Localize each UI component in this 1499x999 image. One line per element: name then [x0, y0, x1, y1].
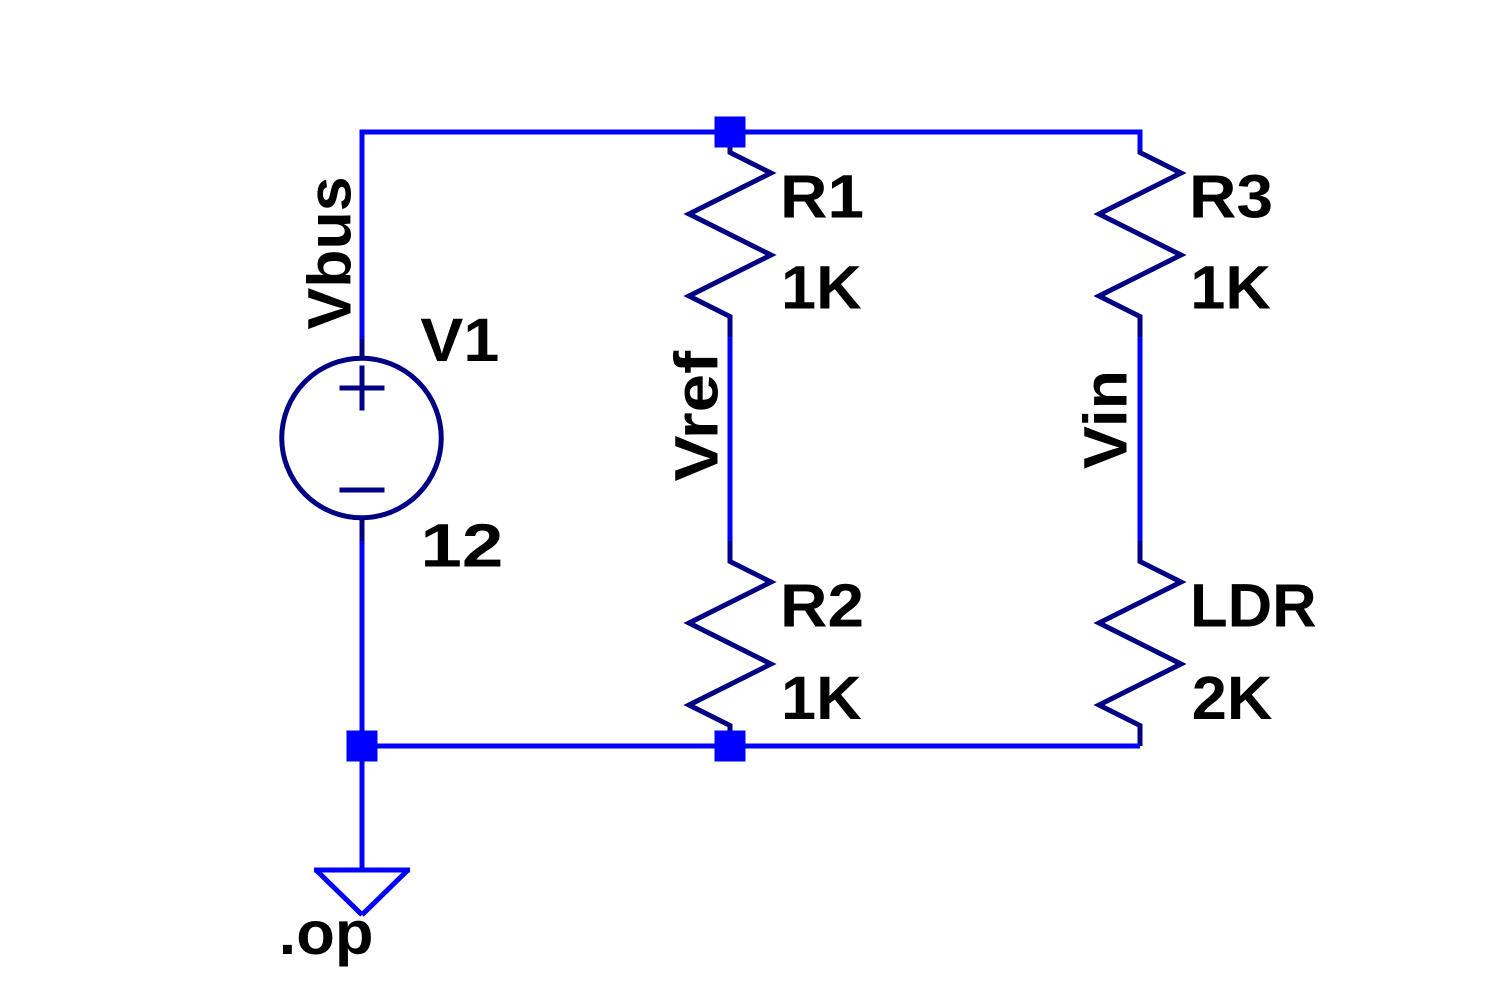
svg-text:1K: 1K	[781, 254, 862, 322]
svg-text:R3: R3	[1189, 163, 1273, 231]
svg-text:R1: R1	[780, 163, 864, 231]
svg-text:R2: R2	[780, 571, 864, 639]
svg-text:2K: 2K	[1192, 664, 1273, 732]
svg-text:Vref: Vref	[663, 350, 731, 481]
svg-text:LDR: LDR	[1190, 571, 1317, 639]
svg-text:V1: V1	[420, 306, 499, 374]
svg-text:.op: .op	[279, 899, 374, 967]
svg-text:Vin: Vin	[1072, 370, 1140, 469]
svg-text:1K: 1K	[781, 664, 862, 732]
svg-text:12: 12	[420, 511, 503, 579]
svg-text:1K: 1K	[1190, 254, 1271, 322]
svg-text:Vbus: Vbus	[296, 177, 364, 330]
